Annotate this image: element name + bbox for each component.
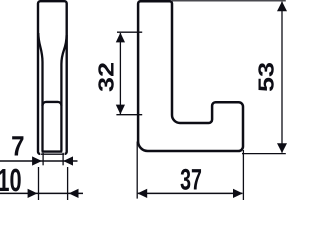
dim 37 arrow right (233, 189, 243, 198)
dim 53 arrow bottom (277, 143, 287, 153)
dim 32 line (119, 33, 121, 114)
front view bottom edge (thin) (41, 153, 64, 155)
dim 7 arrow left (32, 156, 42, 165)
dim 7 extension line right (62, 153, 64, 166)
dim 37 extension line left (136, 142, 138, 199)
dim 32 arrow bottom (116, 105, 125, 115)
front view slot bottom thick line (42, 150, 63, 152)
front view left taper curve + inner left wall (38, 33, 42, 152)
dim 53 arrow top (277, 1, 287, 11)
dim 10 arrow right (69, 189, 79, 198)
dim 32 arrow top (116, 33, 125, 43)
front view outer contour (hook plate, left view) (38, 1, 67, 154)
dim 32 extension line bottom (116, 114, 142, 116)
svg-text:53: 53 (254, 62, 279, 92)
dim 7 line (0, 160, 78, 162)
front view right taper curve + inner right wall (61, 35, 66, 152)
dim 53 extension line bottom (242, 153, 286, 155)
svg-text:10: 10 (0, 162, 22, 198)
side view hook outline (right view) (138, 1, 243, 151)
dim 10 extension line right (67, 167, 69, 200)
dim 37 extension line right (242, 150, 244, 200)
dim 10 line (0, 192, 83, 194)
svg-text:37: 37 (180, 164, 202, 197)
dim 10 arrow left (28, 189, 38, 198)
dim 53 extension line top (172, 0, 286, 2)
dim 53 line (281, 2, 283, 153)
front view slot top arc (43, 102, 62, 106)
svg-text:32: 32 (93, 62, 118, 92)
dim 37 arrow left (137, 189, 147, 198)
dim 37 line (138, 192, 243, 194)
dim 32 extension line top (117, 31, 142, 33)
dim 7 extension line left (42, 153, 44, 166)
dim 10 extension line left (38, 167, 40, 200)
svg-text:7: 7 (11, 130, 24, 161)
dim 7 arrow right (63, 156, 73, 165)
